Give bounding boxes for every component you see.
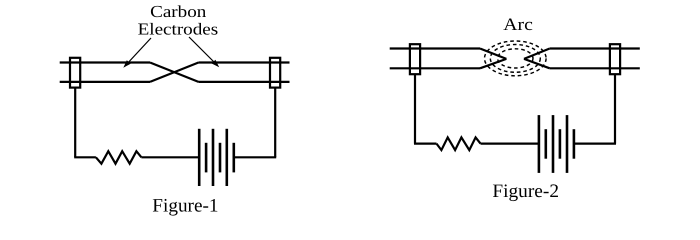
wire from right holder down (Figure-2) (614, 74, 616, 143)
battery B2 (3 cells) (539, 115, 574, 173)
arrow to left electrode (123, 38, 151, 68)
wire bottom left to resistor (74, 156, 96, 158)
left carbon electrode (Figure-1) (60, 63, 199, 82)
resistor R1 (96, 151, 141, 164)
svg-text:Carbon: Carbon (150, 2, 207, 21)
wire battery to right riser (234, 156, 276, 158)
left carbon electrode (Figure-2) (390, 49, 507, 69)
arrow to right electrode (189, 37, 219, 67)
right electrode holder (Figure-1) (270, 58, 280, 88)
wire from right holder down (274, 88, 276, 158)
arc (dashed ellipses) (485, 41, 547, 76)
left electrode holder (Figure-2) (410, 44, 420, 74)
wire bottom left to resistor (Figure-2) (414, 143, 437, 145)
right carbon electrode (Figure-2) (524, 49, 640, 69)
left electrode holder (Figure-1) (70, 58, 80, 88)
svg-text:Arc: Arc (503, 14, 533, 34)
label "Carbon Electrodes" (138, 2, 219, 39)
right carbon electrode (Figure-1) (150, 63, 290, 82)
wire resistor to battery (141, 156, 199, 158)
right electrode holder (Figure-2) (610, 44, 620, 74)
wire from left holder down (Figure-2) (414, 74, 416, 143)
wire resistor to battery (Figure-2) (481, 143, 539, 145)
battery B1 (3 cells) (199, 129, 234, 186)
svg-text:Figure-1: Figure-1 (152, 195, 218, 216)
svg-text:Figure-2: Figure-2 (492, 181, 559, 202)
wire battery to right riser (Figure-2) (574, 143, 616, 145)
resistor R2 (437, 137, 481, 150)
svg-text:Electrodes: Electrodes (138, 20, 219, 39)
wire from left holder down (74, 88, 76, 158)
